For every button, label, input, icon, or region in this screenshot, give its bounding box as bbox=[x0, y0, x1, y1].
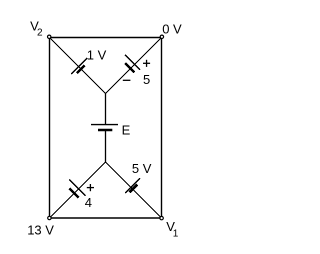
svg-text:1: 1 bbox=[173, 229, 179, 240]
label minus of battery B3 bbox=[123, 79, 131, 81]
battery B3 (5 branch) long plate bbox=[125, 55, 140, 70]
label + of battery B3 bbox=[143, 62, 150, 64]
battery E long plate bbox=[91, 124, 118, 126]
wire top junction to battery E top plate bbox=[105, 94, 107, 125]
battery B2 (1 V branch) short plate bbox=[77, 65, 85, 73]
battery B4 (4 branch) long plate bbox=[69, 180, 85, 196]
battery B3 (5 branch) short plate bbox=[125, 63, 134, 72]
wire diagonal bottom junction to node V1 bbox=[106, 162, 162, 218]
wire diagonal from node V2 to top junction bbox=[50, 38, 106, 94]
battery E short plate bbox=[98, 129, 112, 132]
svg-text:5: 5 bbox=[143, 72, 150, 87]
wire left side bbox=[49, 38, 51, 219]
svg-text:2: 2 bbox=[37, 28, 43, 39]
svg-text:1 V: 1 V bbox=[87, 48, 107, 63]
svg-text:13 V: 13 V bbox=[27, 223, 54, 238]
battery B5 (5 V branch) short plate bbox=[130, 185, 138, 193]
wire right side bbox=[161, 38, 163, 219]
wire diagonal bottom junction to node 13V bbox=[50, 162, 106, 218]
battery B5 (5 V branch) long plate bbox=[125, 178, 140, 193]
node V2 terminal circle bbox=[48, 35, 51, 38]
wire battery E bottom plate to bottom junction bbox=[105, 130, 107, 162]
battery B4 (4 branch) short plate bbox=[69, 188, 78, 197]
node V1 terminal circle bbox=[160, 216, 163, 219]
node 0V terminal circle bbox=[160, 35, 163, 38]
wire diagonal from node 0V to top junction bbox=[106, 38, 162, 94]
wire top side bbox=[50, 37, 162, 39]
wire bottom side bbox=[50, 217, 162, 219]
battery B2 (1 V branch) long plate bbox=[71, 58, 87, 74]
svg-text:0 V: 0 V bbox=[162, 22, 182, 37]
label + of battery B4 bbox=[87, 187, 94, 189]
node 13V terminal circle bbox=[48, 216, 51, 219]
svg-text:5 V: 5 V bbox=[132, 161, 152, 176]
svg-text:E: E bbox=[122, 123, 131, 138]
svg-text:4: 4 bbox=[85, 195, 92, 210]
